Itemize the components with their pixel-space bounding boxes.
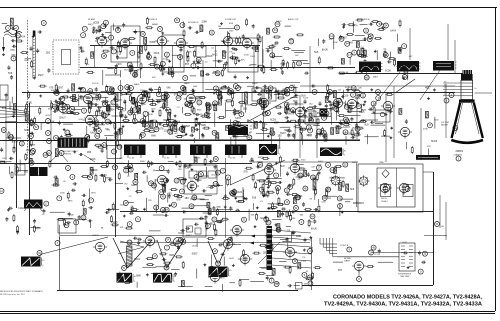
svg-text:4.5 MC: 4.5 MC (164, 158, 170, 160)
svg-text:6AU6: 6AU6 (154, 52, 160, 55)
svg-text:12K: 12K (304, 284, 308, 286)
svg-text:3.3K: 3.3K (297, 92, 302, 94)
svg-text:40: 40 (42, 260, 44, 262)
svg-text:5U8: 5U8 (252, 197, 257, 199)
svg-text:470K: 470K (326, 198, 331, 200)
svg-text:6CB6: 6CB6 (26, 103, 32, 105)
svg-text:6SN7: 6SN7 (280, 133, 286, 135)
svg-text:6CD6: 6CD6 (243, 39, 250, 41)
svg-text:12B4: 12B4 (249, 161, 255, 163)
svg-text:6K6: 6K6 (350, 189, 355, 191)
svg-text:150V: 150V (246, 105, 251, 107)
svg-text:100K: 100K (403, 72, 408, 74)
svg-text:MEG: MEG (373, 77, 378, 79)
svg-text:4BZ7: 4BZ7 (361, 110, 367, 112)
svg-text:6AX4: 6AX4 (390, 29, 396, 32)
svg-text:6AU6: 6AU6 (184, 82, 190, 85)
svg-text:12B4: 12B4 (90, 93, 96, 95)
svg-text:4.5 MC: 4.5 MC (230, 158, 236, 160)
svg-text:6AU6: 6AU6 (322, 48, 328, 51)
svg-text:1ST IF: 1ST IF (92, 83, 99, 85)
svg-text:MEG: MEG (220, 277, 225, 279)
svg-text:5U8: 5U8 (8, 73, 13, 75)
svg-text:150V: 150V (193, 86, 198, 88)
svg-text:470K: 470K (201, 122, 206, 124)
svg-text:4BZ7: 4BZ7 (425, 87, 431, 89)
svg-text:SOUND DET: SOUND DET (225, 19, 237, 21)
svg-text:5%: 5% (302, 257, 305, 259)
svg-text:6AX4: 6AX4 (134, 258, 140, 261)
svg-text:6AL5: 6AL5 (90, 132, 96, 135)
svg-text:LIN ADJ: LIN ADJ (381, 200, 388, 203)
svg-text:6W6: 6W6 (99, 114, 104, 116)
svg-text:5%: 5% (266, 104, 269, 106)
svg-text:150V: 150V (229, 30, 234, 32)
svg-text:6AL5: 6AL5 (326, 187, 332, 190)
svg-text:22K: 22K (287, 230, 291, 232)
svg-text:6W6: 6W6 (136, 276, 141, 278)
svg-text:SET 38 Copr in Inc. Inc. 1957: SET 38 Copr in Inc. Inc. 1957 (0, 293, 25, 296)
svg-text:150V: 150V (192, 246, 197, 248)
svg-text:CB47: CB47 (379, 162, 385, 164)
svg-text:B+: B+ (475, 88, 477, 90)
svg-text:33K: 33K (292, 218, 296, 220)
svg-text:6CD6: 6CD6 (431, 141, 438, 143)
svg-text:.0047: .0047 (141, 104, 147, 106)
svg-text:CORONADO MODELS TV2-9426A, TV2: CORONADO MODELS TV2-9426A, TV2-9427A, TV… (333, 295, 483, 301)
svg-text:47K: 47K (152, 77, 156, 79)
svg-text:6CD6: 6CD6 (178, 233, 185, 235)
svg-text:100K: 100K (250, 56, 255, 58)
svg-text:470K: 470K (241, 125, 246, 127)
svg-text:22K: 22K (358, 88, 362, 90)
svg-text:23BP4: 23BP4 (456, 150, 464, 153)
svg-text:450: 450 (441, 226, 444, 228)
svg-text:4BZ7: 4BZ7 (343, 134, 349, 136)
svg-text:12B4: 12B4 (168, 128, 174, 130)
svg-text:SOUND IF: SOUND IF (188, 22, 199, 24)
svg-text:6K6: 6K6 (167, 88, 172, 90)
svg-text:5U8: 5U8 (364, 124, 369, 126)
svg-text:12B4: 12B4 (35, 228, 41, 230)
svg-text:WIDTH: WIDTH (381, 198, 388, 200)
svg-text:12AU7: 12AU7 (59, 117, 67, 120)
svg-text:1B3: 1B3 (87, 152, 92, 154)
svg-text:4BZ7: 4BZ7 (235, 232, 241, 234)
svg-text:6SN7: 6SN7 (140, 161, 146, 163)
svg-text:33K: 33K (218, 26, 222, 28)
svg-text:5U8: 5U8 (2, 108, 7, 110)
svg-text:6CB6: 6CB6 (345, 87, 351, 89)
svg-text:100K: 100K (192, 197, 197, 199)
svg-text:6SN7: 6SN7 (192, 254, 198, 256)
svg-text:1B3: 1B3 (243, 108, 248, 110)
svg-text:47K: 47K (329, 39, 333, 41)
svg-text:EPC: EPC (137, 69, 142, 71)
svg-text:6SN7: 6SN7 (57, 88, 63, 90)
svg-text:265V: 265V (308, 222, 313, 224)
svg-text:6W6: 6W6 (169, 255, 174, 257)
svg-text:6K6: 6K6 (288, 114, 293, 116)
svg-text:4BZ7: 4BZ7 (185, 126, 191, 128)
svg-text:1B3: 1B3 (46, 52, 51, 54)
svg-text:6T8: 6T8 (49, 87, 54, 89)
svg-text:AUDIO OUT: AUDIO OUT (288, 18, 299, 21)
svg-text:22K: 22K (148, 200, 152, 202)
svg-text:4.5 MC: 4.5 MC (129, 158, 135, 160)
svg-text:6AU6: 6AU6 (286, 130, 292, 133)
svg-text:12K: 12K (157, 101, 161, 103)
svg-text:1B3: 1B3 (168, 193, 173, 195)
svg-text:3.3K: 3.3K (78, 119, 83, 121)
svg-text:3.3K: 3.3K (50, 121, 55, 123)
svg-text:265V: 265V (91, 192, 96, 194)
svg-text:220K: 220K (194, 119, 199, 121)
svg-text:6T8: 6T8 (174, 94, 179, 96)
svg-text:12K: 12K (247, 132, 251, 134)
svg-text:6AU6: 6AU6 (311, 227, 317, 230)
svg-text:3.3K: 3.3K (149, 114, 154, 116)
svg-text:1B3: 1B3 (362, 66, 367, 68)
svg-text:6CD6: 6CD6 (385, 71, 392, 73)
svg-text:EPC: EPC (3, 158, 8, 160)
svg-text:82K: 82K (241, 60, 245, 62)
svg-text:5U8: 5U8 (293, 101, 298, 103)
svg-text:TRAP GATE: TRAP GATE (400, 275, 410, 278)
svg-text:5U8: 5U8 (280, 166, 285, 168)
svg-text:SOUND IF: SOUND IF (148, 19, 158, 21)
svg-text:150V: 150V (303, 98, 308, 100)
svg-text:6AU6: 6AU6 (207, 55, 213, 58)
svg-text:6K6: 6K6 (153, 65, 158, 67)
svg-text:6AX4: 6AX4 (237, 191, 243, 194)
svg-text:33K: 33K (251, 215, 255, 217)
svg-text:6SN7: 6SN7 (38, 75, 44, 77)
svg-text:470K: 470K (423, 129, 428, 131)
svg-text:4BZ7: 4BZ7 (273, 123, 279, 125)
svg-text:CONT B: CONT B (340, 245, 349, 247)
svg-text:40: 40 (344, 150, 346, 152)
svg-text:265V: 265V (45, 115, 50, 117)
svg-text:6W6: 6W6 (311, 116, 316, 118)
svg-text:12B4: 12B4 (201, 22, 207, 24)
svg-text:REPRODUCED FROM PHOTOFACT SCHE: REPRODUCED FROM PHOTOFACT SCHEMATIC (0, 290, 44, 293)
svg-text:40: 40 (229, 270, 231, 272)
svg-text:12AU7: 12AU7 (95, 96, 103, 99)
svg-text:5U8: 5U8 (314, 52, 319, 54)
svg-text:6SN7: 6SN7 (186, 235, 192, 237)
svg-text:40: 40 (279, 148, 281, 150)
svg-text:6K6: 6K6 (24, 172, 29, 174)
svg-text:6W6: 6W6 (151, 135, 156, 137)
svg-text:12AU7: 12AU7 (18, 207, 26, 210)
svg-text:470K: 470K (60, 192, 65, 194)
svg-text:33K: 33K (253, 187, 257, 189)
svg-text:6CB6: 6CB6 (150, 42, 156, 44)
svg-text:6AU6: 6AU6 (134, 83, 140, 86)
svg-text:TP 26: TP 26 (374, 254, 381, 256)
svg-text:1B3: 1B3 (263, 252, 268, 254)
svg-text:6AU6: 6AU6 (252, 82, 258, 85)
svg-text:12AU7: 12AU7 (92, 234, 99, 237)
svg-text:6T8: 6T8 (14, 142, 19, 144)
svg-text:MAGNET: MAGNET (441, 124, 448, 127)
svg-text:MEG: MEG (68, 201, 73, 203)
svg-text:6CD6: 6CD6 (270, 119, 277, 121)
svg-text:.0047: .0047 (402, 242, 408, 244)
svg-text:6W6: 6W6 (234, 137, 239, 139)
svg-text:3.3K: 3.3K (321, 202, 326, 204)
svg-text:12AU7: 12AU7 (183, 166, 191, 169)
svg-text:6W4: 6W4 (318, 161, 323, 163)
svg-text:EPC: EPC (214, 210, 219, 212)
svg-text:1B3: 1B3 (185, 198, 190, 200)
svg-text:3.3K: 3.3K (187, 52, 192, 54)
svg-text:5%: 5% (86, 64, 89, 66)
svg-text:6W6: 6W6 (201, 125, 206, 127)
svg-text:6CB6: 6CB6 (93, 23, 99, 25)
svg-text:12AU7: 12AU7 (241, 258, 249, 261)
svg-text:TV2-9429A, TV2-9430A, TV2-9431: TV2-9429A, TV2-9430A, TV2-9431A, TV2-943… (324, 301, 482, 307)
svg-text:6AX4: 6AX4 (352, 161, 358, 164)
svg-text:47K: 47K (427, 146, 431, 148)
svg-text:RF AMP: RF AMP (88, 18, 96, 21)
svg-text:6CD6: 6CD6 (106, 109, 113, 111)
svg-text:6AL5: 6AL5 (212, 54, 218, 57)
svg-text:.0047: .0047 (229, 258, 235, 260)
svg-text:6CB6: 6CB6 (24, 130, 30, 132)
svg-text:150V: 150V (151, 108, 156, 110)
svg-text:6AX4: 6AX4 (235, 117, 241, 120)
svg-text:BOOSTED B+: BOOSTED B+ (358, 19, 371, 21)
svg-text:GATE: GATE (344, 260, 350, 263)
svg-text:5U8: 5U8 (301, 95, 306, 97)
svg-text:.0047: .0047 (24, 60, 30, 62)
svg-text:12AU7: 12AU7 (343, 126, 351, 129)
svg-text:6AW8: 6AW8 (152, 23, 159, 26)
svg-text:6K6: 6K6 (117, 64, 122, 66)
svg-text:6AU6: 6AU6 (90, 158, 96, 161)
